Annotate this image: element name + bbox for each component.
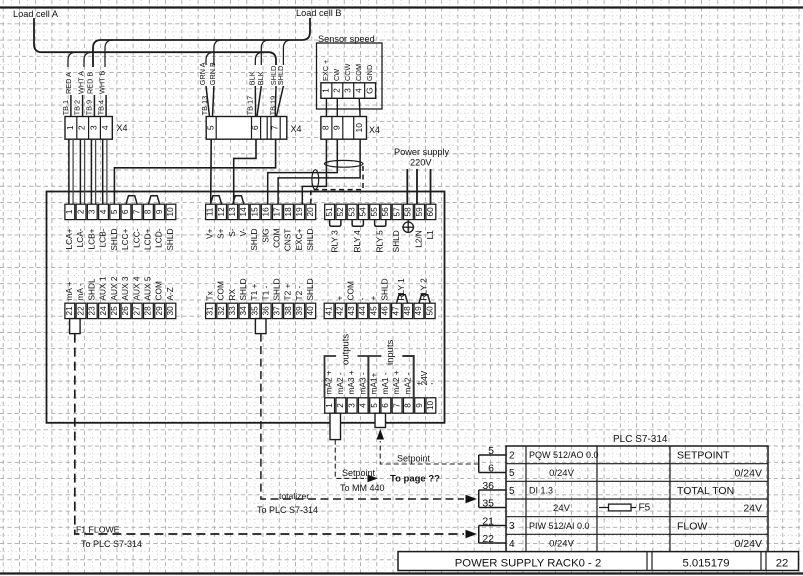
svg-text:COM: COM — [346, 281, 356, 300]
wire power L1 to terminal 60 — [430, 169, 432, 204]
terminal strip 41-50 — [324, 303, 334, 318]
outputs bracket right segment — [358, 355, 382, 357]
svg-text:LCC+: LCC+ — [120, 228, 130, 250]
svg-text:TB 17: TB 17 — [245, 96, 254, 115]
svg-text:29: 29 — [155, 306, 164, 316]
svg-text:3: 3 — [89, 125, 99, 130]
svg-text:8: 8 — [404, 403, 413, 408]
inputs bracket right segment — [402, 356, 413, 397]
terminal strip 1-10 — [65, 204, 75, 219]
svg-text:X4: X4 — [117, 123, 128, 133]
svg-text:G: G — [364, 87, 374, 94]
svg-text:2: 2 — [77, 125, 87, 130]
terminal strip 31-40 — [206, 303, 216, 318]
svg-text:24: 24 — [99, 306, 108, 316]
plug stub terminals 21-22 — [70, 319, 81, 334]
svg-text:WHT B: WHT B — [98, 70, 107, 94]
sheet bottom border line — [0, 572, 803, 574]
dashed route setpoint output (connector 1/2) — [335, 440, 364, 479]
svg-text:SIG: SIG — [260, 229, 270, 243]
svg-text:6: 6 — [488, 463, 494, 475]
svg-text:+: + — [368, 296, 378, 301]
svg-text:37: 37 — [273, 306, 282, 316]
cable bundle oval (sensor cable) — [324, 160, 363, 167]
svg-text:43: 43 — [347, 306, 356, 316]
svg-text:mA2 -: mA2 - — [335, 372, 345, 394]
wire slant SHLD into X4 block B — [274, 86, 277, 117]
svg-text:RLY 2: RLY 2 — [419, 278, 429, 301]
title block divider 2b — [765, 552, 767, 571]
wire X4-9 to terminal 16 — [268, 139, 338, 204]
svg-text:1: 1 — [321, 88, 331, 93]
svg-text:34: 34 — [239, 306, 248, 316]
sensor terminal strip 1-G — [321, 83, 376, 99]
wire stub into X4 block A — [105, 95, 107, 117]
terminal strip 51-60 — [325, 204, 335, 219]
svg-text:26: 26 — [121, 306, 130, 316]
svg-text:33: 33 — [228, 306, 237, 316]
svg-text:POWER SUPPLY RACK0 - 2: POWER SUPPLY RACK0 - 2 — [455, 557, 601, 569]
svg-text:Load cell B: Load cell B — [296, 8, 341, 18]
PLC input pair 5/6 — [479, 454, 506, 456]
svg-text:19: 19 — [295, 207, 304, 217]
svg-text:10: 10 — [354, 123, 364, 133]
wire slant SHLD into X4 block B — [276, 86, 283, 117]
svg-text:SHLD: SHLD — [305, 278, 315, 300]
svg-text:Tx: Tx — [205, 290, 215, 300]
svg-text:35: 35 — [482, 498, 494, 510]
svg-text:31: 31 — [206, 306, 215, 316]
svg-text:20: 20 — [306, 207, 315, 217]
svg-text:46: 46 — [381, 306, 390, 316]
svg-text:inputs: inputs — [385, 339, 396, 365]
svg-text:60: 60 — [426, 207, 435, 217]
svg-text:22: 22 — [76, 306, 85, 316]
svg-text:LCD+: LCD+ — [143, 228, 153, 250]
svg-text:5: 5 — [488, 445, 494, 457]
svg-text:AUX 4: AUX 4 — [131, 276, 141, 300]
svg-text:14: 14 — [239, 207, 248, 217]
svg-text:6: 6 — [381, 403, 390, 408]
svg-text:mA3 +: mA3 + — [346, 370, 356, 394]
svg-text:7: 7 — [132, 209, 141, 214]
wire sensor EXC+ to X4-8 — [325, 98, 327, 116]
svg-text:mA -: mA - — [75, 283, 85, 300]
svg-text:RLY 1: RLY 1 — [396, 278, 406, 301]
svg-text:T1 -: T1 - — [260, 286, 270, 301]
svg-text:36: 36 — [262, 306, 271, 316]
wire drop GRN A from bus A — [206, 52, 214, 65]
svg-text:4: 4 — [100, 125, 110, 130]
wire X4-10 to terminal 17 — [278, 139, 360, 204]
svg-text:RLY 5: RLY 5 — [374, 230, 384, 253]
svg-text:5.015179: 5.015179 — [682, 557, 729, 569]
svg-text:59: 59 — [415, 207, 424, 217]
svg-text:COM: COM — [216, 281, 226, 300]
svg-text:47: 47 — [392, 306, 401, 316]
svg-text:COM: COM — [154, 281, 164, 300]
wire sensor CW to X4-9 — [336, 98, 338, 116]
svg-text:Power supply: Power supply — [394, 147, 450, 157]
PLC I/O table — [398, 445, 799, 571]
svg-text:mA +: mA + — [64, 281, 74, 300]
PLC input pair 21/22 — [479, 525, 506, 527]
svg-text:Setpoint: Setpoint — [397, 454, 431, 464]
jumper loop 53-54 — [352, 220, 363, 227]
svg-text:3: 3 — [342, 88, 352, 93]
arrow setpoint into connector — [377, 429, 385, 440]
svg-text:52: 52 — [336, 207, 345, 217]
svg-text:AUX 5: AUX 5 — [143, 276, 153, 300]
svg-text:SHDL: SHDL — [86, 278, 96, 301]
svg-text:9: 9 — [415, 403, 424, 408]
svg-text:22: 22 — [776, 557, 789, 569]
output/input connector strip 1-10 — [325, 398, 335, 413]
svg-text:220V: 220V — [410, 158, 432, 168]
svg-text:13: 13 — [228, 207, 237, 217]
svg-text:TB 1: TB 1 — [61, 100, 70, 115]
svg-text:DI 1.3: DI 1.3 — [529, 486, 553, 496]
svg-text:AUX 3: AUX 3 — [120, 276, 130, 300]
svg-text:mA3 -: mA3 - — [357, 372, 367, 394]
svg-text:41: 41 — [324, 306, 333, 316]
svg-text:GRN B: GRN B — [208, 62, 217, 85]
wire stub into X4 block A — [82, 95, 84, 117]
svg-text:PLC S7-314: PLC S7-314 — [613, 434, 668, 445]
wire X4-8 to terminal 19 — [302, 139, 326, 204]
svg-text:V+: V+ — [205, 228, 215, 239]
svg-text:LCB+: LCB+ — [86, 228, 96, 249]
svg-text:0/24V: 0/24V — [735, 538, 762, 550]
outputs/inputs divider — [367, 356, 369, 414]
svg-text:-: - — [357, 298, 367, 301]
svg-text:PIW 512/AI 0.0: PIW 512/AI 0.0 — [529, 521, 590, 531]
svg-text:RED A: RED A — [64, 72, 73, 94]
jumper bridge 13-14 — [233, 196, 244, 205]
svg-text:16: 16 — [262, 207, 271, 217]
svg-text:SETPOINT: SETPOINT — [677, 450, 730, 462]
svg-text:TOTAL TON: TOTAL TON — [677, 485, 734, 497]
svg-text:55: 55 — [370, 207, 379, 217]
wire drop BLK from bus A — [255, 52, 263, 65]
svg-text:23: 23 — [88, 306, 97, 316]
svg-text:TB 19: TB 19 — [269, 96, 278, 115]
svg-text:FLOW: FLOW — [677, 520, 707, 532]
svg-text:AUX 2: AUX 2 — [109, 276, 119, 300]
svg-text:12: 12 — [217, 207, 226, 217]
svg-text:57: 57 — [392, 207, 401, 217]
svg-text:1: 1 — [325, 403, 334, 408]
dashed route F1 FLOW (21/22 to PLC) — [75, 334, 464, 534]
svg-text:24V: 24V — [743, 503, 762, 515]
svg-text:LCA+: LCA+ — [64, 228, 74, 249]
svg-text:45: 45 — [369, 306, 378, 316]
svg-text:WHT A: WHT A — [77, 71, 86, 94]
svg-text:9: 9 — [155, 209, 164, 214]
svg-text:S-: S- — [227, 228, 237, 237]
svg-text:17: 17 — [273, 207, 282, 217]
svg-text:TB 2: TB 2 — [73, 100, 82, 115]
wire power L2/N to terminal 58 — [406, 169, 408, 204]
svg-text:38: 38 — [284, 306, 293, 316]
svg-text:2: 2 — [336, 403, 345, 408]
outputs bracket — [325, 356, 337, 397]
svg-text:27: 27 — [132, 306, 141, 316]
wire power to terminal 59 — [416, 169, 418, 204]
svg-text:30: 30 — [166, 306, 175, 316]
svg-text:T2 +: T2 + — [283, 284, 293, 301]
svg-text:GRN A: GRN A — [198, 62, 207, 85]
svg-text:+: + — [334, 296, 344, 301]
svg-text:SHLD: SHLD — [305, 229, 315, 251]
svg-text:L2/N: L2/N — [414, 230, 424, 248]
svg-text:5: 5 — [509, 468, 515, 479]
svg-text:X4: X4 — [369, 125, 380, 135]
svg-text:CNST: CNST — [283, 229, 293, 252]
svg-text:mA1 -: mA1 - — [380, 372, 390, 394]
svg-text:5: 5 — [370, 403, 379, 408]
svg-text:10: 10 — [426, 401, 435, 411]
wire pair X4-2 to terminal 2 — [79, 139, 81, 204]
svg-text:LCD-: LCD- — [154, 228, 164, 248]
terminal block X4 B (5-7) — [206, 117, 287, 140]
jumper bridge 11-12 — [210, 196, 221, 205]
svg-text:TB 9: TB 9 — [85, 100, 94, 115]
svg-text:3: 3 — [509, 521, 515, 532]
svg-text:50: 50 — [425, 306, 434, 316]
plug stub connector 5-6 — [375, 413, 386, 427]
arrow setpoint to MM440 — [368, 475, 379, 483]
svg-text:To PLC S7-314: To PLC S7-314 — [81, 539, 142, 549]
svg-text:25: 25 — [110, 306, 119, 316]
svg-text:2: 2 — [509, 450, 515, 461]
svg-text:BLK: BLK — [256, 71, 265, 85]
plug stub terminals 35-36 — [255, 319, 266, 334]
svg-text:5: 5 — [509, 486, 515, 497]
title block divider 1b — [651, 552, 653, 571]
arrow into PLC 21/22 — [466, 530, 478, 539]
svg-text:44: 44 — [358, 306, 367, 316]
svg-text:outputs: outputs — [340, 334, 351, 365]
svg-text:1: 1 — [65, 125, 75, 130]
svg-text:F5: F5 — [639, 503, 651, 514]
svg-text:11: 11 — [206, 207, 215, 216]
jumper loop 55-56 — [375, 220, 386, 227]
wire slant GRN A into X4 block B — [206, 86, 210, 117]
svg-text:TB 4: TB 4 — [96, 100, 105, 115]
svg-text:58: 58 — [404, 207, 413, 217]
svg-text:To PLC S7-314: To PLC S7-314 — [257, 505, 318, 515]
svg-text:X4: X4 — [291, 124, 302, 134]
svg-text:9: 9 — [331, 125, 341, 130]
svg-text:21: 21 — [65, 306, 74, 316]
wire pair X4-1 to terminal 1 — [68, 139, 70, 204]
shield wire (dashed) to terminal 20 — [311, 166, 363, 204]
wire drop GRN B from bus B — [214, 40, 222, 65]
svg-text:8: 8 — [321, 125, 331, 130]
svg-text:TB 13: TB 13 — [200, 96, 209, 115]
svg-text:28: 28 — [144, 306, 153, 316]
svg-text:5: 5 — [110, 209, 119, 214]
svg-text:15: 15 — [250, 207, 259, 217]
svg-text:PQW 512/AO 0.0: PQW 512/AO 0.0 — [529, 450, 599, 460]
svg-text:S+: S+ — [216, 228, 226, 239]
svg-text:3: 3 — [88, 209, 97, 214]
svg-text:LCC-: LCC- — [131, 228, 141, 248]
terminal strip 11-20 — [206, 204, 216, 219]
sheet top border line — [0, 6, 803, 8]
svg-text:AUX 1: AUX 1 — [98, 276, 108, 300]
svg-text:0/24V: 0/24V — [549, 539, 574, 550]
svg-text:GND: GND — [365, 65, 374, 81]
svg-text:7: 7 — [392, 403, 401, 408]
wire slant BLK into X4 block B — [254, 86, 256, 117]
wire X4-5 to terminal 11 — [210, 139, 213, 204]
svg-text:V-: V- — [238, 228, 248, 236]
title block box — [398, 552, 799, 571]
fuse F5 — [599, 503, 651, 514]
svg-text:4: 4 — [509, 539, 515, 550]
svg-text:42: 42 — [336, 306, 345, 316]
svg-text:54: 54 — [359, 207, 368, 217]
svg-text:CW: CW — [332, 69, 341, 81]
wire drop RED A from bus A — [68, 52, 76, 67]
jumper loop 51-52 — [330, 220, 341, 227]
svg-text:RLY 4: RLY 4 — [352, 230, 362, 253]
svg-text:SHLD: SHLD — [109, 229, 119, 251]
svg-text:35: 35 — [250, 306, 259, 316]
wire stub into X4 block A — [93, 95, 95, 117]
wire bus A from Load cell A — [34, 18, 276, 65]
wire drop WHT B from bus B — [105, 40, 113, 67]
svg-text:A-Z: A-Z — [165, 287, 175, 300]
svg-text:mA2 +: mA2 + — [391, 370, 401, 394]
svg-text:+: + — [417, 379, 422, 388]
svg-text:4: 4 — [359, 403, 368, 408]
svg-text:T2 -: T2 - — [294, 286, 304, 301]
terminal block X4 A (1-4) — [65, 117, 112, 140]
svg-text:2: 2 — [331, 88, 341, 93]
arrow into PLC 36/35 — [466, 495, 478, 504]
svg-text:SHLD: SHLD — [276, 66, 285, 85]
svg-text:SHLD: SHLD — [391, 230, 401, 252]
svg-text:totalizer: totalizer — [279, 491, 309, 501]
svg-text:6: 6 — [121, 209, 130, 214]
svg-text:39: 39 — [295, 306, 304, 316]
svg-text:COM: COM — [354, 64, 363, 81]
svg-text:2: 2 — [76, 209, 85, 214]
wire drop WHT A from bus A — [84, 52, 92, 67]
title block divider 2 — [760, 552, 762, 571]
jumper bridge 8-9 — [148, 196, 159, 205]
svg-text:56: 56 — [381, 207, 390, 217]
wire sensor COM to X4-10 — [358, 98, 361, 116]
wire drop BLK from bus B — [261, 40, 269, 65]
svg-text:10: 10 — [166, 207, 175, 217]
svg-text:To MM 440: To MM 440 — [340, 483, 385, 493]
PLC input pair 36/35 — [479, 489, 506, 491]
svg-text:EXC +: EXC + — [321, 60, 330, 81]
svg-text:5: 5 — [205, 125, 215, 130]
svg-text:4: 4 — [353, 88, 363, 93]
wire pair X4-4 to terminal 4 — [102, 139, 104, 204]
wire stub into X4 block A — [70, 95, 72, 117]
svg-text:Load cell A: Load cell A — [13, 9, 59, 19]
svg-text:32: 32 — [217, 306, 226, 316]
svg-text:48: 48 — [403, 306, 412, 316]
terminal strip 21-30 — [65, 303, 75, 318]
protective earth symbol — [402, 220, 414, 233]
plug stub connector 1-2 — [330, 413, 341, 439]
jumper bridge 49-50 — [419, 295, 430, 304]
svg-text:7: 7 — [270, 125, 280, 130]
svg-text:L1: L1 — [425, 230, 435, 240]
svg-text:SHLD: SHLD — [165, 229, 175, 251]
svg-text:SHLD: SHLD — [379, 278, 389, 300]
svg-text:Setpoint: Setpoint — [342, 468, 376, 478]
svg-text:RX: RX — [227, 289, 237, 301]
svg-text:40: 40 — [306, 306, 315, 316]
svg-text:mA1+: mA1+ — [369, 372, 379, 394]
wire pair X4-3 to terminal 3 — [90, 139, 92, 204]
wire X4-7 shield to terminal 5 — [114, 139, 275, 204]
terminal block X4 C (8-10) — [321, 117, 367, 140]
dashed route setpoint input (PLC to connector 5/6) — [380, 441, 479, 464]
svg-text:COM: COM — [271, 228, 281, 247]
svg-text:4: 4 — [99, 209, 108, 214]
jumper bridge 6-7 — [126, 196, 137, 205]
cable bundle oval (vertical) — [312, 170, 319, 190]
wire slant BLK into X4 block B — [257, 86, 261, 117]
sensor speed box — [317, 43, 383, 109]
svg-text:49: 49 — [414, 306, 423, 316]
svg-text:To page ??: To page ?? — [390, 474, 440, 485]
dashed route totalizer (35/36 to PLC) — [261, 334, 464, 499]
svg-text:F1 FLOWE: F1 FLOWE — [76, 525, 120, 535]
svg-text:mA2 -: mA2 - — [402, 372, 412, 394]
svg-text:T1 +: T1 + — [249, 284, 259, 301]
svg-text:RLY 3: RLY 3 — [329, 230, 339, 253]
svg-text:36: 36 — [482, 480, 494, 492]
svg-text:EXC+: EXC+ — [294, 228, 304, 250]
wire drop SHLD from bus B — [283, 40, 291, 65]
svg-text:3: 3 — [347, 403, 356, 408]
svg-text:21: 21 — [482, 516, 494, 528]
wire X4-6 to terminal 13 — [234, 139, 256, 204]
svg-text:18: 18 — [284, 207, 293, 217]
main instrument box — [47, 192, 445, 423]
svg-text:SHLD: SHLD — [249, 229, 259, 251]
svg-text:CCW: CCW — [343, 63, 352, 81]
svg-text:6: 6 — [250, 125, 260, 130]
svg-text:SHLD: SHLD — [238, 278, 248, 300]
title block divider 1 — [646, 552, 648, 571]
svg-text:24V: 24V — [553, 503, 571, 514]
svg-text:LCA-: LCA- — [75, 228, 85, 247]
svg-text:1: 1 — [65, 209, 74, 214]
svg-text:-: - — [431, 379, 434, 388]
svg-text:53: 53 — [347, 207, 356, 217]
wire bus B from Load cell B — [93, 18, 310, 67]
svg-text:SHLD: SHLD — [271, 278, 281, 300]
svg-text:0/24V: 0/24V — [549, 468, 574, 479]
jumper bridge 47-48 — [396, 295, 407, 304]
svg-text:RED B: RED B — [86, 72, 95, 94]
svg-text:8: 8 — [144, 209, 153, 214]
svg-text:51: 51 — [325, 207, 334, 217]
svg-text:0/24V: 0/24V — [735, 467, 762, 479]
wire slant GRN B into X4 block B — [213, 86, 214, 117]
